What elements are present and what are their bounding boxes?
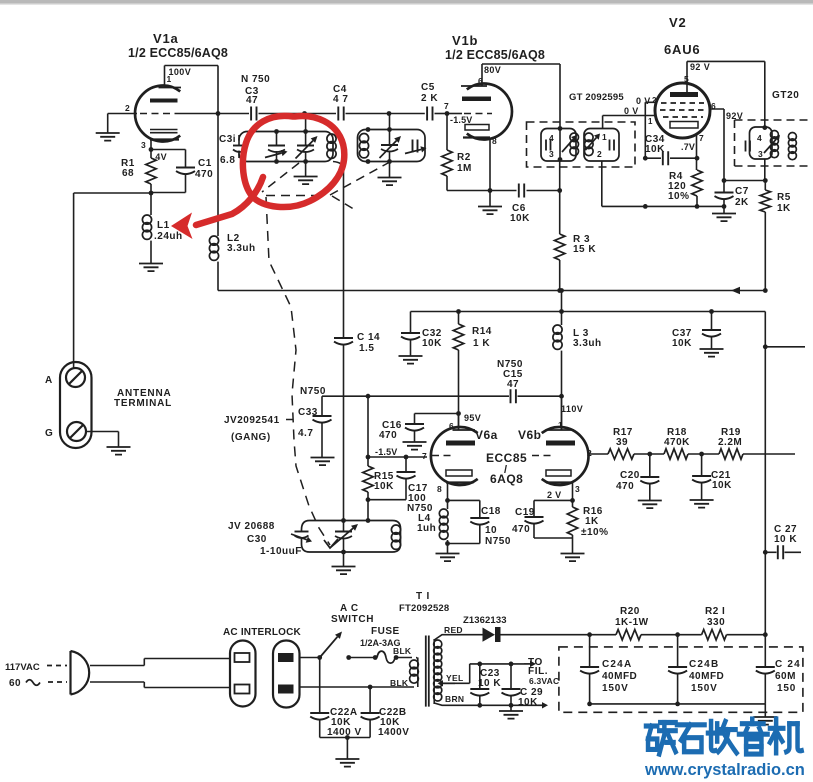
svg-text:117VAC: 117VAC bbox=[5, 662, 40, 673]
tube V1b envelope bbox=[467, 84, 512, 140]
T1 core bbox=[426, 636, 429, 707]
svg-text:R20: R20 bbox=[620, 606, 640, 617]
label R15 10K bbox=[374, 471, 394, 492]
svg-text:6.3VAC: 6.3VAC bbox=[529, 676, 559, 686]
watermark char kuang bbox=[646, 723, 676, 755]
tube V6a envelope bbox=[431, 427, 478, 485]
ground below V1b cathode bbox=[478, 191, 502, 215]
svg-text:2: 2 bbox=[597, 149, 602, 159]
svg-text:L1: L1 bbox=[157, 220, 170, 231]
wire interlock to switch bbox=[300, 655, 323, 660]
wire BRN tap bbox=[434, 702, 548, 708]
svg-text:10K: 10K bbox=[374, 481, 394, 492]
svg-text:C5: C5 bbox=[421, 82, 435, 93]
ground below C22 bbox=[335, 738, 359, 767]
svg-text:C1: C1 bbox=[198, 158, 212, 169]
svg-text:C7: C7 bbox=[735, 186, 749, 197]
ground below C16 bbox=[403, 442, 427, 450]
pin 3 label 2nd IF bbox=[758, 149, 763, 159]
variable capacitor in box1 bbox=[296, 114, 318, 177]
resistor R5 bbox=[760, 181, 770, 293]
svg-text:4 7: 4 7 bbox=[333, 94, 348, 105]
ground below C29 bbox=[499, 705, 523, 718]
svg-text:6AQ8: 6AQ8 bbox=[490, 472, 523, 486]
fuse bbox=[346, 651, 417, 663]
label N750 C33 4.7 bbox=[298, 386, 326, 439]
ground below C37 bbox=[700, 349, 724, 357]
tube V2 grid 3 dashes bbox=[663, 116, 703, 118]
capacitor C18 bbox=[448, 500, 490, 543]
capacitor C24B bbox=[668, 635, 687, 707]
capacitor C5 bbox=[391, 82, 438, 121]
svg-text:92 V: 92 V bbox=[690, 62, 710, 72]
tube V6b cathode bbox=[546, 483, 580, 495]
wire YEL tap bbox=[438, 664, 470, 687]
svg-text:V2: V2 bbox=[669, 15, 687, 30]
capacitor C23 bbox=[470, 664, 489, 705]
wire screen rail line B bbox=[411, 311, 766, 313]
IF transformer dashed box bbox=[527, 122, 636, 167]
label R14 1K bbox=[472, 326, 492, 349]
svg-text:V1a: V1a bbox=[153, 31, 179, 46]
watermark char yin bbox=[739, 719, 768, 754]
node L3 on line B bbox=[559, 309, 564, 314]
wire secondary top RED bbox=[434, 635, 482, 640]
svg-text:SWITCH: SWITCH bbox=[331, 614, 374, 625]
svg-text:150V: 150V bbox=[602, 683, 629, 694]
svg-text:GT 2092595: GT 2092595 bbox=[569, 92, 624, 103]
svg-text:47: 47 bbox=[246, 95, 258, 106]
svg-text:1: 1 bbox=[167, 74, 172, 84]
label N 750 above C3 bbox=[241, 74, 270, 85]
wire V1a grid to ground bbox=[108, 114, 137, 134]
wire IF pin2 down and right bbox=[602, 161, 724, 206]
svg-text:7: 7 bbox=[444, 101, 449, 111]
oscillator box outline bbox=[302, 521, 401, 553]
label C29 10K bbox=[518, 687, 543, 708]
svg-text:2: 2 bbox=[652, 96, 657, 105]
wire 92V node to 2nd IF bottom bbox=[724, 178, 768, 183]
svg-text:V1b: V1b bbox=[452, 33, 478, 48]
capacitor C22A bbox=[310, 658, 329, 738]
ground below C21 bbox=[690, 500, 714, 508]
capacitor C29 bbox=[502, 664, 521, 705]
svg-text:7: 7 bbox=[699, 133, 704, 143]
label C24A 40MFD 150V bbox=[602, 659, 637, 694]
svg-text:150V: 150V bbox=[691, 683, 718, 694]
inductor in osc box right bbox=[391, 525, 400, 549]
svg-text:10%: 10% bbox=[668, 191, 690, 202]
pin 4 label IF primary bbox=[549, 133, 554, 143]
wire N750 line y396 bbox=[322, 394, 509, 399]
svg-text:YEL: YEL bbox=[446, 673, 463, 683]
capacitor in IF primary bbox=[546, 140, 551, 151]
node 95V bbox=[449, 411, 481, 431]
svg-text:2: 2 bbox=[125, 103, 130, 113]
svg-text:BLK: BLK bbox=[393, 646, 412, 656]
ground below box1 bbox=[294, 177, 318, 185]
tube V6a plate bbox=[446, 414, 475, 446]
svg-text:G: G bbox=[45, 428, 53, 439]
inductor in second IF can bbox=[770, 131, 778, 158]
node junction bus-grid-C3 bbox=[216, 111, 221, 116]
tube V6a label bbox=[475, 428, 542, 442]
svg-text:C3i: C3i bbox=[219, 134, 236, 145]
capacitor C6 bbox=[492, 184, 558, 198]
ground below G bbox=[107, 447, 131, 455]
svg-text:1.5: 1.5 bbox=[359, 343, 374, 354]
label C23 10K bbox=[478, 668, 501, 689]
svg-text:470: 470 bbox=[616, 481, 634, 492]
svg-text:-1.5V: -1.5V bbox=[375, 447, 398, 457]
variable capacitor C31 in osc box bbox=[331, 521, 359, 555]
svg-text:C24A: C24A bbox=[602, 659, 632, 670]
wire V6b pin2 to R17 bbox=[588, 453, 608, 455]
svg-text:.24uh: .24uh bbox=[154, 231, 183, 242]
wire R15 to oscillator box bbox=[367, 500, 369, 521]
capacitor C37 bbox=[702, 312, 721, 349]
svg-text:C33: C33 bbox=[298, 407, 318, 418]
svg-text:A C: A C bbox=[340, 603, 359, 614]
label C19 470 bbox=[512, 507, 535, 535]
label GT 2092595 bbox=[569, 92, 624, 103]
inductor L2 bbox=[209, 236, 218, 291]
ground below L1 bbox=[139, 264, 163, 272]
node IF primary top bbox=[558, 126, 563, 131]
wire filament 6.3VAC bbox=[470, 661, 536, 667]
node R14 on line B bbox=[456, 309, 461, 314]
wire interlock bottom to T1 bbox=[300, 685, 415, 690]
capacitor C3 bbox=[245, 86, 259, 121]
antenna terminal body bbox=[60, 362, 92, 448]
tube V1b grid dashes bbox=[464, 113, 492, 115]
svg-text:1K-1W: 1K-1W bbox=[615, 617, 649, 628]
svg-text:C30: C30 bbox=[247, 534, 267, 545]
svg-text:JV 20688: JV 20688 bbox=[228, 521, 275, 532]
wire grid line to C3 junction bbox=[178, 113, 249, 115]
interlock plug female bbox=[230, 641, 256, 707]
svg-text:40MFD: 40MFD bbox=[602, 671, 637, 682]
svg-text:R2: R2 bbox=[457, 152, 471, 163]
wire V1a plate lead pin 1 bbox=[164, 66, 166, 88]
node oscillator box top R15 bbox=[366, 518, 371, 523]
label -1.5V at V6a bbox=[375, 447, 398, 457]
label C37 10K bbox=[672, 328, 692, 349]
resistor R16 bbox=[567, 500, 577, 553]
svg-text:N750: N750 bbox=[485, 536, 511, 547]
node right bus branch bbox=[763, 344, 768, 349]
svg-text:0 V: 0 V bbox=[624, 106, 639, 116]
svg-text:4: 4 bbox=[549, 133, 554, 143]
capacitor C15 bbox=[511, 389, 562, 403]
label C17 100 N750 L4 1uh bbox=[407, 483, 436, 534]
wire R17 to R18 bbox=[634, 452, 664, 457]
svg-text:FT2092528: FT2092528 bbox=[399, 603, 449, 614]
wire filter bottom bbox=[590, 703, 766, 705]
svg-text:R14: R14 bbox=[472, 326, 492, 337]
wire R19 east bbox=[743, 453, 795, 455]
capacitor C27 bbox=[763, 545, 801, 559]
interlock plug male bbox=[273, 641, 300, 708]
svg-text:3.3uh: 3.3uh bbox=[573, 338, 602, 349]
capacitor C24C bbox=[756, 635, 775, 704]
svg-text:68: 68 bbox=[122, 168, 134, 179]
pin 3 label V1a bbox=[141, 140, 146, 150]
label R1 68 bbox=[121, 158, 135, 179]
label BRN bbox=[445, 694, 464, 704]
capacitor C22B bbox=[361, 687, 380, 738]
pin 7 node V1b grid bbox=[444, 101, 462, 116]
wire 2nd IF bottom lead bbox=[764, 159, 766, 181]
label T1 FT2092528 bbox=[399, 591, 449, 614]
svg-text:100V: 100V bbox=[169, 67, 192, 77]
label C22A 10K 1400V bbox=[327, 707, 362, 738]
resistor R2 bbox=[442, 114, 488, 191]
svg-text:2K: 2K bbox=[735, 197, 749, 208]
svg-text:RED: RED bbox=[444, 625, 463, 635]
tube V1a label bbox=[128, 31, 228, 60]
tube V6b plate bbox=[546, 396, 575, 445]
label C24C 60MFD 150V bbox=[775, 659, 801, 694]
label ANTENNA TERMINAL bbox=[114, 388, 172, 409]
svg-text:1K: 1K bbox=[777, 203, 791, 214]
svg-text:15 K: 15 K bbox=[573, 244, 596, 255]
trimmer C30 in box left edge bbox=[291, 532, 312, 543]
gang dashed link horizontal bbox=[266, 195, 326, 197]
label TO FIL 6.3VAC bbox=[528, 657, 559, 686]
wire junction to antenna lead bbox=[74, 193, 151, 368]
antenna screw G bbox=[67, 422, 86, 441]
scan edge artifact top bar bbox=[0, 0, 813, 4]
capacitor C4 bbox=[307, 84, 349, 121]
inductor in IF primary bbox=[562, 133, 579, 156]
label C3i 6.8 bbox=[219, 134, 236, 166]
T1 primary winding bbox=[410, 658, 419, 688]
svg-text:2: 2 bbox=[587, 448, 592, 458]
wire C5 to V1b grid junction bbox=[435, 113, 448, 115]
label JV20688 C30 1-10uuF bbox=[228, 521, 302, 557]
node junction R4 bottom rail bbox=[695, 204, 700, 209]
trimmer capacitor in box2 bbox=[405, 140, 427, 154]
node 80V bbox=[478, 65, 501, 86]
svg-text:1400 V: 1400 V bbox=[327, 727, 362, 738]
svg-text:47: 47 bbox=[507, 379, 519, 390]
wire C22 bottoms bbox=[320, 735, 370, 740]
watermark char ji bbox=[770, 719, 802, 753]
label YEL bbox=[446, 673, 463, 683]
tuned circuit box 1 outline bbox=[239, 132, 333, 162]
T1 secondary winding bbox=[434, 639, 442, 704]
tube V1a grid box bbox=[150, 130, 178, 133]
label 117VAC 60Hz bbox=[5, 662, 40, 689]
wire C3 to box1 bbox=[259, 113, 303, 115]
wire V6b cathode top bbox=[534, 499, 573, 501]
ground below R16 bbox=[561, 554, 585, 562]
label ECC85 6AQ8 center bbox=[486, 451, 527, 486]
ground at V1a grid bbox=[96, 133, 120, 141]
tube V6a grid dashes bbox=[422, 451, 452, 461]
tube V1b plate bbox=[461, 86, 491, 101]
label .7V bbox=[681, 133, 704, 152]
red annotation circle bbox=[243, 116, 344, 207]
svg-text:C24B: C24B bbox=[689, 659, 719, 670]
label L1 .24uh bbox=[154, 220, 183, 242]
label 0V pin2 bbox=[636, 96, 657, 106]
tube V1b grid box bbox=[465, 125, 489, 131]
label N750 C15 47 bbox=[497, 359, 523, 390]
ground below osc box bbox=[332, 552, 356, 574]
watermark char shou bbox=[708, 721, 737, 753]
label AC SWITCH bbox=[331, 603, 374, 625]
capacitor C14 bbox=[333, 162, 353, 521]
label G bbox=[45, 428, 53, 439]
svg-text:N 750: N 750 bbox=[241, 74, 270, 85]
wire R20 to R21 bbox=[587, 632, 701, 637]
label C34 10K bbox=[645, 134, 665, 155]
node oscillator box top C14 bbox=[341, 518, 346, 523]
gang link check mark bbox=[324, 539, 338, 548]
svg-text:39: 39 bbox=[616, 437, 628, 448]
pin 1 label IF secondary bbox=[602, 132, 607, 142]
svg-text:10: 10 bbox=[485, 525, 497, 536]
wire 95V to C16 bbox=[415, 413, 459, 415]
svg-text:470: 470 bbox=[379, 430, 397, 441]
IF primary can outline bbox=[541, 129, 576, 162]
capacitor C16 bbox=[405, 414, 424, 442]
wire C4 to box2 junction bbox=[346, 111, 392, 116]
inductor in IF secondary bbox=[585, 133, 601, 156]
ground below C24 bbox=[753, 704, 777, 725]
svg-text:C 24: C 24 bbox=[775, 659, 801, 670]
label AC INTERLOCK bbox=[223, 627, 302, 638]
svg-text:www.crystalradio.cn: www.crystalradio.cn bbox=[644, 761, 805, 779]
wire plug to cord bottom bbox=[90, 682, 230, 688]
svg-text:8: 8 bbox=[492, 136, 497, 146]
tube V2 plate bbox=[670, 92, 698, 97]
svg-text:6AU6: 6AU6 bbox=[664, 42, 700, 57]
svg-text:R2 I: R2 I bbox=[705, 606, 725, 617]
resistor R4 bbox=[692, 170, 702, 206]
wire plug to cord top bbox=[90, 659, 230, 666]
second IF dashed box bbox=[735, 120, 811, 166]
svg-text:BLK: BLK bbox=[390, 678, 409, 688]
capacitor C34 bbox=[645, 151, 699, 165]
svg-text:10K: 10K bbox=[422, 338, 442, 349]
filter dashed box bbox=[559, 647, 803, 712]
capacitor C32 bbox=[401, 312, 420, 357]
pin 3 label IF primary bbox=[549, 149, 554, 159]
tube V6a cathode bbox=[437, 483, 474, 495]
label C7 2K bbox=[735, 186, 749, 208]
capacitor C17 bbox=[368, 455, 427, 500]
node R1-C1-L1 junction bbox=[149, 191, 154, 196]
label L3 3.3uh bbox=[573, 328, 602, 349]
label R2 1M bbox=[457, 152, 472, 174]
tube V6b grid dashes bbox=[532, 448, 592, 458]
label C22B 10K 1400V bbox=[378, 707, 409, 738]
pin 4 label 2nd IF bbox=[757, 133, 762, 143]
svg-text:1: 1 bbox=[648, 117, 653, 126]
wire V2 pin2 bbox=[643, 102, 655, 160]
pin 2 label IF secondary bbox=[597, 149, 602, 159]
resistor R17 bbox=[608, 427, 634, 459]
node IF primary bottom bbox=[558, 129, 563, 162]
svg-text:-1.5V: -1.5V bbox=[450, 115, 473, 125]
wire IF pin1 to V2 pin1 bbox=[603, 116, 656, 129]
label 2V bbox=[547, 490, 561, 500]
tuned circuit box 2 outline bbox=[358, 130, 426, 162]
svg-text:4.7: 4.7 bbox=[298, 428, 313, 439]
wire plate top rail to bus bbox=[165, 65, 219, 67]
wire 80V rail down to IF transformer bbox=[559, 64, 561, 129]
pin 6 label V2 bbox=[711, 101, 716, 111]
svg-text:C20: C20 bbox=[620, 470, 640, 481]
capacitor C19 bbox=[525, 500, 573, 538]
svg-text:1M: 1M bbox=[457, 163, 472, 174]
label R16 1K 10% bbox=[581, 506, 609, 538]
svg-text:1: 1 bbox=[602, 132, 607, 142]
svg-text:3.3uh: 3.3uh bbox=[227, 243, 256, 254]
node 100V at V1a plate bbox=[167, 67, 192, 84]
tube V2 cathode box bbox=[670, 122, 698, 129]
svg-text:A: A bbox=[45, 375, 53, 386]
svg-text:N750: N750 bbox=[300, 386, 326, 397]
svg-text:Z1362133: Z1362133 bbox=[463, 615, 507, 626]
svg-text:40MFD: 40MFD bbox=[689, 671, 724, 682]
svg-text:95V: 95V bbox=[464, 413, 481, 423]
wire V6b cathode lead bbox=[570, 483, 575, 503]
tube V2 envelope bbox=[655, 83, 710, 138]
svg-text:1uh: 1uh bbox=[417, 523, 436, 534]
capacitor C3i in box1 left edge bbox=[232, 135, 246, 158]
capacitor in second IF can bbox=[746, 141, 751, 152]
svg-text:150: 150 bbox=[777, 683, 796, 694]
switch blade bbox=[320, 632, 342, 658]
capacitor C7 bbox=[715, 181, 734, 214]
svg-text:.7V: .7V bbox=[681, 142, 695, 152]
gang dashed link to oscillator bbox=[266, 197, 330, 545]
label C16 470 bbox=[379, 420, 402, 441]
resistor R20 bbox=[615, 606, 649, 640]
svg-text:10 K: 10 K bbox=[774, 534, 797, 545]
svg-text:1-10uuF: 1-10uuF bbox=[260, 546, 302, 557]
inductor L1 bbox=[142, 193, 151, 263]
node C37 on line B bbox=[709, 309, 714, 314]
node .4V label bbox=[153, 152, 167, 162]
second IF can outline bbox=[750, 127, 773, 159]
watermark char shi bbox=[677, 725, 705, 752]
tube V2 grid 1 dashes bbox=[661, 102, 704, 104]
wire V1b plate to 80V rail bbox=[482, 64, 560, 86]
svg-text:(GANG): (GANG) bbox=[231, 432, 271, 443]
svg-text:470: 470 bbox=[512, 524, 530, 535]
inductor in box2 left bbox=[359, 127, 370, 164]
wire R21 to right bus bbox=[727, 632, 768, 637]
svg-text:AC INTERLOCK: AC INTERLOCK bbox=[223, 627, 302, 638]
label 0V lower bbox=[624, 106, 653, 126]
label BLK bottom bbox=[390, 678, 409, 688]
node junction above tuned box 1 bbox=[302, 111, 307, 116]
label C1 470 bbox=[195, 158, 213, 180]
ground below C7 bbox=[712, 214, 736, 222]
red annotation arrow bbox=[171, 177, 263, 239]
svg-text:BRN: BRN bbox=[445, 694, 464, 704]
svg-text:C19: C19 bbox=[515, 507, 535, 518]
svg-text:3: 3 bbox=[575, 484, 580, 494]
tube V2 grid 2 dashes bbox=[660, 109, 705, 111]
svg-text:±10%: ±10% bbox=[581, 527, 609, 538]
svg-text:80V: 80V bbox=[484, 65, 501, 75]
